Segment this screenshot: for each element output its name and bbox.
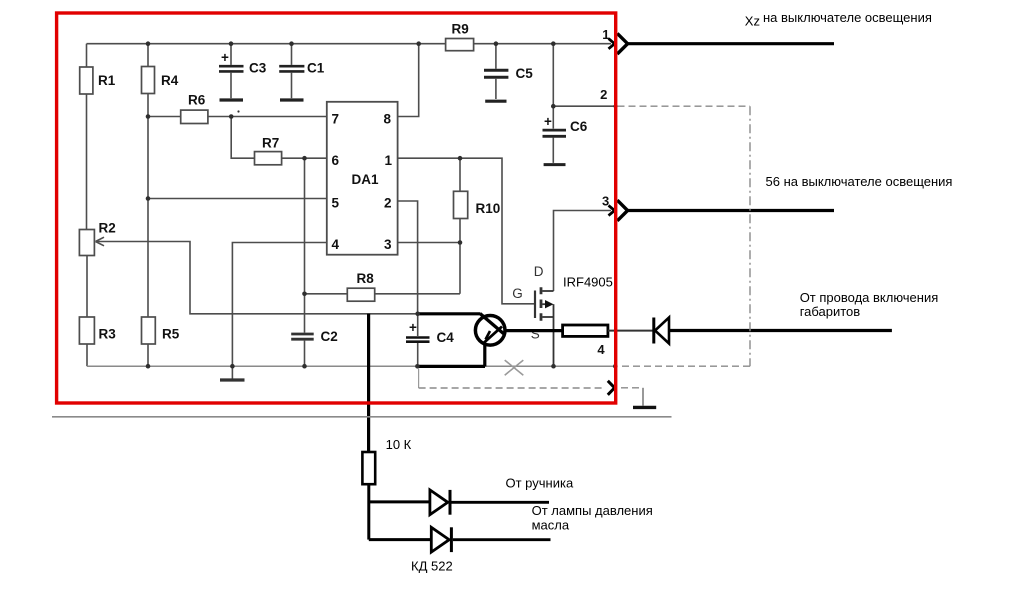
svg-text:2: 2 (600, 87, 607, 102)
wire R4 top stem (147, 44, 149, 67)
svg-text:4: 4 (332, 237, 340, 252)
connector pin 1 arrows (609, 39, 615, 49)
svg-text:3: 3 (384, 237, 392, 252)
svg-text:IRF4905: IRF4905 (563, 275, 613, 290)
svg-text:3: 3 (602, 194, 609, 209)
wire R7 branch down (231, 117, 327, 159)
wire R2 wiper to C4 node (97, 242, 418, 314)
op-amp U1 DA1 box (327, 102, 398, 255)
wire pin6 node down to R8/C2 (304, 158, 306, 294)
svg-text:R4: R4 (161, 73, 179, 88)
svg-text:R1: R1 (98, 73, 116, 88)
svg-text:4: 4 (597, 342, 605, 357)
wire ground rail (87, 365, 615, 367)
dashed alternate ground path (418, 369, 420, 389)
svg-text:S: S (531, 327, 540, 342)
resistor R8 (347, 288, 374, 301)
wire thick pin3 lead (628, 209, 834, 212)
svg-text:Xz: Xz (745, 14, 760, 29)
wire DA1 pin1 to gate (398, 158, 535, 304)
dashed connector outline top (618, 105, 751, 107)
resistor R3 (79, 317, 94, 344)
diode (gabarit input) (652, 318, 655, 344)
svg-text:56 на выключателе освещения: 56 на выключателе освещения (766, 174, 953, 189)
svg-text:R7: R7 (262, 136, 279, 151)
wire thick C4 bottom to Q1 emitter (417, 365, 485, 368)
wire thick source output (504, 329, 563, 332)
svg-text:C4: C4 (437, 330, 455, 345)
capacitor C2 (304, 294, 306, 333)
wire DA1 pin5 (148, 198, 327, 200)
wire R8 net (305, 293, 461, 295)
svg-text:R3: R3 (99, 327, 117, 342)
svg-text:на выключателе освещения: на выключателе освещения (763, 10, 932, 25)
wire DA1 pin3 (398, 242, 460, 244)
resistor R7 (255, 152, 282, 165)
wire R1 top stem (86, 44, 88, 67)
resistor R10 (459, 158, 461, 294)
svg-text:G: G (512, 286, 523, 301)
dashed connector outline bottom (620, 365, 750, 367)
resistor (source series) (563, 325, 608, 336)
wire R5 bottom to rail (147, 344, 149, 366)
svg-text:C3: C3 (249, 61, 267, 76)
svg-text:2: 2 (384, 196, 392, 211)
wire R6 net to DA1 pin 7 (148, 116, 327, 118)
red frame (57, 13, 616, 403)
svg-text:C1: C1 (307, 61, 325, 76)
svg-text:масла: масла (532, 518, 570, 533)
svg-text:DA1: DA1 (352, 172, 379, 187)
svg-text:От лампы давления: От лампы давления (532, 503, 653, 518)
wire MOSFET drain to pin3 output (554, 211, 612, 292)
connector pin 3 arrows (609, 205, 615, 215)
resistor R5 (142, 317, 156, 344)
capacitor C3 (230, 44, 232, 65)
svg-text:габаритов: габаритов (800, 304, 861, 319)
wire DA1 pin2 down (398, 201, 418, 314)
svg-text:От провода включения: От провода включения (800, 290, 939, 305)
diode D1 KD522 (430, 490, 448, 515)
wire thick C4 node to Q1 base (418, 312, 481, 315)
svg-text:R2: R2 (99, 221, 116, 236)
capacitor C4 (417, 314, 419, 336)
wire 10K bottom (367, 484, 370, 539)
svg-text:R10: R10 (476, 201, 501, 216)
transistor Q2 MOSFET IRF4905 (535, 287, 554, 366)
capacitor C1 (291, 44, 293, 65)
svg-text:C5: C5 (516, 66, 534, 81)
svg-text:+: + (409, 320, 417, 335)
wire to diode D1 (369, 500, 430, 503)
diode D2 KD522 (431, 527, 449, 552)
svg-text:1: 1 (602, 27, 609, 42)
resistor R9 (446, 39, 474, 51)
svg-text:5: 5 (332, 196, 340, 211)
svg-text:+: + (544, 114, 552, 129)
resistor R4 (142, 67, 155, 94)
svg-text:КД 522: КД 522 (411, 559, 453, 574)
svg-text:R6: R6 (188, 93, 206, 108)
svg-text:8: 8 (384, 111, 392, 126)
wire R2 to R3 (86, 256, 88, 318)
wire top supply rail (87, 43, 612, 45)
potentiometer R2 (79, 230, 94, 256)
gray page divider line (52, 416, 672, 418)
svg-text:7: 7 (332, 111, 340, 126)
x cross mark (505, 360, 524, 375)
svg-text:6: 6 (332, 153, 340, 168)
svg-text:C2: C2 (321, 329, 338, 344)
svg-text:C6: C6 (570, 119, 588, 134)
wire R4 to R5 (147, 94, 149, 318)
wire to diode (608, 330, 653, 332)
resistor R1 (80, 67, 93, 94)
wire thick gabarit lead (669, 329, 892, 332)
svg-text:R5: R5 (162, 327, 180, 342)
connector pin 4 chevron (608, 381, 615, 395)
wire thick down to 10K (367, 314, 370, 452)
svg-text:+: + (221, 50, 229, 65)
svg-text:D: D (534, 264, 544, 279)
dashed connector outline right (749, 106, 751, 366)
ground symbol external (633, 406, 656, 409)
potentiometer R2 wiper arrow (96, 237, 105, 246)
svg-text:1: 1 (385, 153, 393, 168)
transistor Q1 (475, 314, 505, 367)
junction dots (146, 41, 618, 368)
svg-text:От ручника: От ручника (506, 475, 574, 490)
svg-text:R8: R8 (357, 271, 375, 286)
wire DA1 pin8 up to rail (398, 44, 419, 117)
wire R1 to R2 (86, 94, 88, 230)
capacitor C6 (552, 44, 554, 129)
wire R3 bottom to rail (86, 344, 88, 366)
wire to diode D2 (369, 538, 432, 541)
resistor R6 (181, 110, 208, 123)
svg-text:R9: R9 (452, 21, 469, 36)
resistor 10 K (362, 452, 375, 484)
ground symbol inside box (231, 366, 233, 378)
capacitor C5 (495, 44, 497, 69)
svg-text:10 К: 10 К (386, 437, 412, 452)
wire DA1 pin4 to ground (232, 243, 326, 367)
wire thick pin1 lead (628, 42, 834, 45)
